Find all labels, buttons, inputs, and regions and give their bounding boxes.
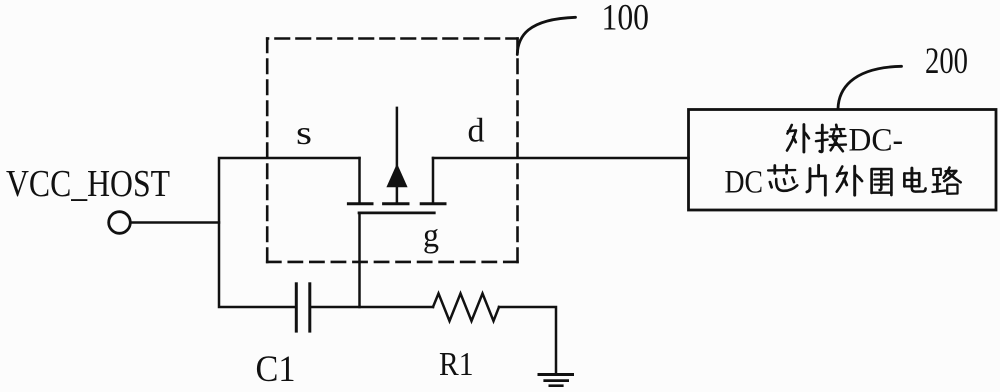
svg-text:200: 200 [925, 41, 968, 82]
svg-text:C1: C1 [256, 349, 296, 390]
svg-text:R1: R1 [439, 346, 474, 383]
svg-text:DC-: DC- [849, 122, 904, 158]
svg-text:g: g [423, 218, 439, 255]
svg-text:DC: DC [725, 165, 764, 201]
svg-text:s: s [296, 115, 312, 152]
svg-text:VCC_HOST: VCC_HOST [6, 163, 170, 205]
svg-text:100: 100 [602, 0, 650, 39]
svg-text:d: d [468, 113, 485, 150]
